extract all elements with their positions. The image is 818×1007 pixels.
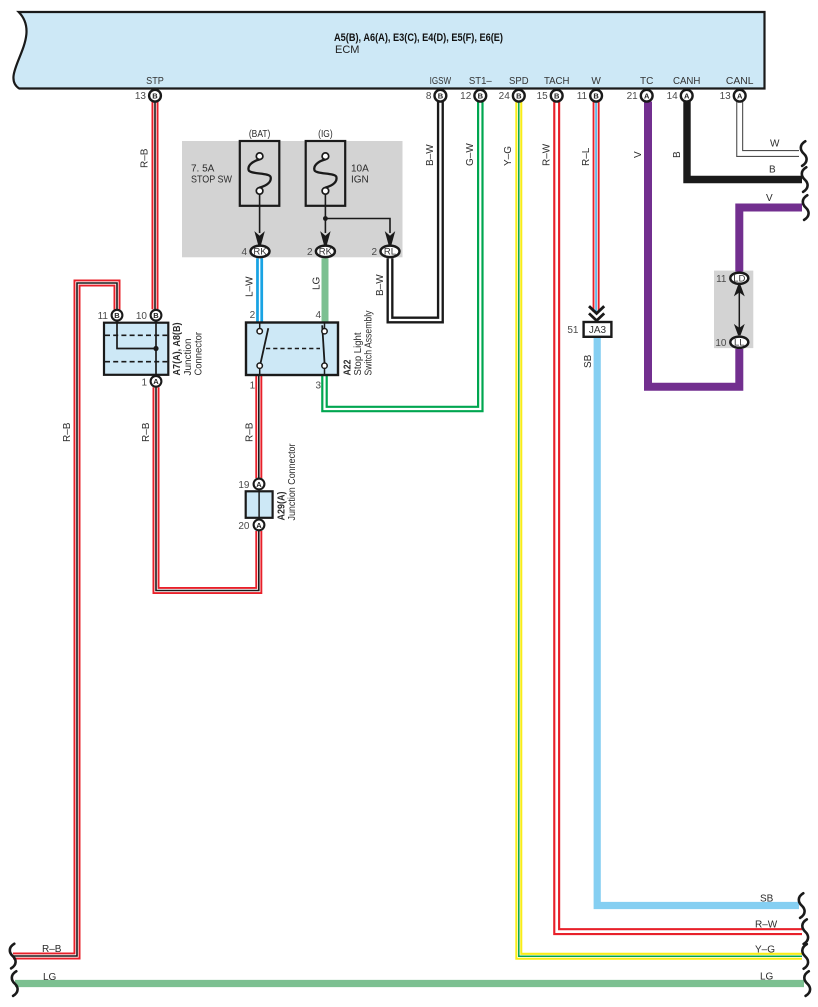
svg-text:A5(B), A6(A), E3(C), E4(D), E5: A5(B), A6(A), E3(C), E4(D), E5(F), E6(E) (334, 32, 503, 44)
svg-text:TACH: TACH (544, 76, 570, 87)
svg-text:LG: LG (43, 972, 57, 983)
svg-text:IGSW: IGSW (430, 76, 452, 87)
svg-text:ST1–: ST1– (469, 76, 492, 87)
svg-text:B: B (672, 151, 683, 158)
svg-text:LD: LD (733, 274, 745, 285)
svg-text:2: 2 (250, 310, 256, 321)
svg-text:SB: SB (583, 354, 594, 368)
svg-text:(IG): (IG) (318, 129, 333, 140)
svg-text:12: 12 (460, 91, 472, 102)
svg-text:W: W (770, 139, 780, 150)
svg-text:7. 5A: 7. 5A (191, 164, 215, 175)
svg-text:3: 3 (316, 380, 322, 391)
svg-text:RK: RK (253, 247, 267, 258)
svg-text:RK: RK (319, 247, 333, 258)
svg-text:20: 20 (238, 521, 250, 532)
svg-text:IGN: IGN (351, 175, 369, 186)
svg-text:21: 21 (627, 91, 639, 102)
svg-text:A: A (256, 521, 262, 530)
svg-text:LL: LL (734, 338, 745, 349)
svg-text:B: B (593, 92, 599, 101)
svg-text:8: 8 (426, 91, 432, 102)
svg-text:CANL: CANL (726, 76, 754, 87)
svg-text:R–B: R–B (140, 148, 151, 168)
svg-text:SB: SB (760, 894, 774, 905)
svg-text:Switch Assembly: Switch Assembly (364, 311, 375, 376)
svg-text:51: 51 (567, 325, 579, 336)
svg-text:B: B (153, 311, 159, 320)
svg-text:24: 24 (499, 91, 511, 102)
svg-text:A: A (153, 377, 159, 386)
svg-text:TC: TC (640, 76, 653, 87)
svg-text:A: A (684, 92, 690, 101)
svg-text:4: 4 (316, 310, 322, 321)
svg-text:LG: LG (760, 972, 774, 983)
svg-text:R–B: R–B (141, 422, 152, 442)
svg-text:Y–G: Y–G (755, 944, 775, 955)
svg-text:Stop Light: Stop Light (353, 332, 364, 375)
svg-text:R–B: R–B (42, 944, 62, 955)
svg-text:G–W: G–W (465, 143, 476, 166)
svg-text:STOP SW: STOP SW (191, 175, 232, 186)
svg-text:1: 1 (141, 377, 147, 388)
svg-text:11: 11 (98, 311, 109, 322)
svg-text:B: B (769, 165, 776, 176)
svg-text:R–B: R–B (245, 422, 256, 442)
svg-text:A7(A), A8(B): A7(A), A8(B) (172, 323, 183, 376)
svg-text:A29(A): A29(A) (277, 492, 288, 521)
svg-text:13: 13 (720, 91, 732, 102)
svg-text:Junction: Junction (183, 339, 194, 376)
svg-text:1: 1 (250, 380, 256, 391)
svg-text:(BAT): (BAT) (249, 129, 271, 140)
svg-text:R–L: R–L (581, 147, 592, 166)
svg-text:14: 14 (667, 91, 679, 102)
svg-text:A: A (737, 92, 743, 101)
svg-text:11: 11 (716, 274, 727, 285)
svg-text:B–W: B–W (375, 274, 386, 296)
svg-text:SPD: SPD (509, 76, 529, 87)
svg-text:JA3: JA3 (589, 325, 607, 336)
svg-text:STP: STP (146, 76, 164, 87)
svg-text:R–B: R–B (62, 422, 73, 442)
svg-text:13: 13 (135, 91, 147, 102)
svg-text:Connector: Connector (194, 331, 205, 375)
svg-text:W: W (591, 76, 601, 87)
svg-text:A22: A22 (343, 359, 354, 375)
svg-text:19: 19 (238, 480, 250, 491)
svg-text:10: 10 (136, 311, 148, 322)
svg-text:LG: LG (311, 276, 322, 290)
svg-text:CANH: CANH (673, 76, 701, 87)
svg-text:ECM: ECM (335, 44, 359, 56)
svg-text:A: A (256, 480, 262, 489)
svg-text:11: 11 (577, 91, 588, 102)
svg-text:B: B (114, 311, 120, 320)
svg-text:R–W: R–W (542, 143, 553, 166)
svg-text:R–W: R–W (755, 920, 778, 931)
svg-text:Y–G: Y–G (503, 146, 514, 166)
svg-text:V: V (633, 151, 644, 158)
svg-text:A: A (644, 92, 650, 101)
svg-text:L–W: L–W (245, 276, 256, 297)
svg-text:Junction Connector: Junction Connector (287, 443, 298, 521)
svg-text:B: B (438, 92, 444, 101)
svg-text:2: 2 (371, 247, 377, 258)
svg-text:B: B (554, 92, 560, 101)
svg-text:B: B (478, 92, 484, 101)
svg-text:B–W: B–W (425, 144, 436, 166)
svg-text:RL: RL (384, 247, 396, 258)
svg-text:4: 4 (241, 247, 247, 258)
svg-text:B: B (152, 92, 158, 101)
svg-text:2: 2 (307, 247, 313, 258)
svg-text:B: B (516, 92, 522, 101)
svg-text:15: 15 (537, 91, 549, 102)
svg-text:10A: 10A (351, 164, 369, 175)
svg-text:V: V (766, 193, 773, 204)
svg-text:10: 10 (715, 338, 727, 349)
